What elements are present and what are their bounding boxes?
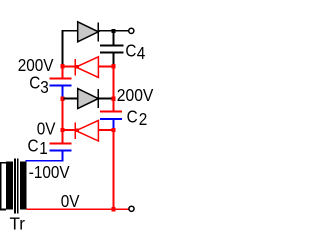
transformer Tr core line 2 <box>17 159 19 214</box>
svg-text:C: C <box>127 107 138 127</box>
capacitor C4 bottom plate <box>100 51 124 53</box>
svg-text:3: 3 <box>40 77 49 97</box>
svg-text:2: 2 <box>139 109 148 129</box>
wire: top output wire, left segment (anode side of D1) <box>62 30 78 32</box>
wire: blue stub from C2 bottom plate down to row3 node <box>113 120 115 130</box>
svg-text:0V: 0V <box>37 118 56 138</box>
node: left 200V junction dot <box>60 64 64 68</box>
wire: red stub from left 200V node down to C3 top plate <box>62 66 64 78</box>
wire: blue stub from C3 bottom plate down to row2 node <box>62 86 64 98</box>
transformer Tr secondary winding bar <box>20 162 27 210</box>
capacitor C1 top plate (red) <box>50 142 72 144</box>
svg-text:4: 4 <box>137 43 146 63</box>
diode D4 (red, pointing left) <box>74 120 98 141</box>
wire: red row1 right segment (anode of D2 to right 200V node) <box>99 66 112 68</box>
capacitor C2 top plate (red) <box>100 110 122 112</box>
svg-text:C: C <box>29 72 40 92</box>
svg-text:200V: 200V <box>117 85 154 105</box>
transformer Tr primary top lead <box>0 162 6 164</box>
wire: red bottom 0V wire from transformer secondary to terminal <box>27 208 129 210</box>
node: right row3 junction dot <box>111 128 115 132</box>
wire: red right column from row3 node down to bottom wire <box>113 130 115 209</box>
node: bottom junction dot <box>111 207 115 211</box>
node: right junction dot (C4 bottom / D2 anode) <box>111 64 115 68</box>
svg-text:C: C <box>125 41 136 61</box>
node: right row2 junction dot <box>111 96 115 100</box>
capacitor C3 top plate (red) <box>50 78 72 80</box>
wire: blue stub from C1 bottom plate down to transformer lead row <box>62 151 64 161</box>
svg-text:1: 1 <box>39 138 48 158</box>
wire: red left column from row2 node down to row3 node <box>62 99 64 130</box>
diode D1 (top, black, pointing right) <box>78 22 99 42</box>
wire: black stub from top wire down to C4 top plate <box>113 31 115 45</box>
svg-text:C: C <box>28 135 39 155</box>
wire: red row3 right segment (anode of D4 to right row3 node) <box>99 129 112 131</box>
capacitor C4 top plate <box>100 45 124 47</box>
capacitor C2 bottom plate (blue) <box>100 118 122 120</box>
svg-text:Tr: Tr <box>10 213 26 234</box>
capacitor C1 bottom plate (blue) <box>50 149 72 151</box>
wire: red row1 left segment (cathode side of D2) <box>63 66 74 68</box>
wire: blue horizontal lead from transformer secondary top to C1 <box>26 160 64 162</box>
wire: red row3 left segment (cathode side of D4) <box>63 129 74 131</box>
wire: top output wire, right segment (cathode of D1 to terminal) <box>98 30 128 32</box>
terminal: bottom output circle <box>129 206 134 211</box>
diode D2 (red, pointing left) <box>74 57 98 78</box>
node: junction dot on top output wire above C4 <box>111 29 115 33</box>
wire: black stub from C4 bottom plate down to 200V node <box>113 53 115 65</box>
node: left row2 junction dot <box>60 96 64 100</box>
svg-text:-100V: -100V <box>29 162 71 182</box>
wire: black row2 right segment (cathode of D3 to right node) <box>99 98 113 100</box>
terminal: top output circle <box>129 28 134 33</box>
node: left row3 junction dot <box>60 128 64 132</box>
wire: black row2 left segment (anode side of D3) <box>63 98 77 100</box>
transformer Tr primary winding bar <box>6 162 13 210</box>
transformer Tr primary left return wire <box>0 162 2 211</box>
diode D3 (middle, black, pointing right) <box>78 89 99 109</box>
transformer Tr core line 1 <box>14 159 16 214</box>
capacitor C3 bottom plate (blue) <box>50 85 72 87</box>
wire: red stub from left row3 node down to C1 top plate <box>62 130 64 142</box>
wire: top-left vertical drop from output wire to 200V node <box>62 30 64 67</box>
wire: red right column from row1 node down to C2 top plate <box>113 66 115 111</box>
transformer Tr primary bottom lead <box>0 209 6 211</box>
